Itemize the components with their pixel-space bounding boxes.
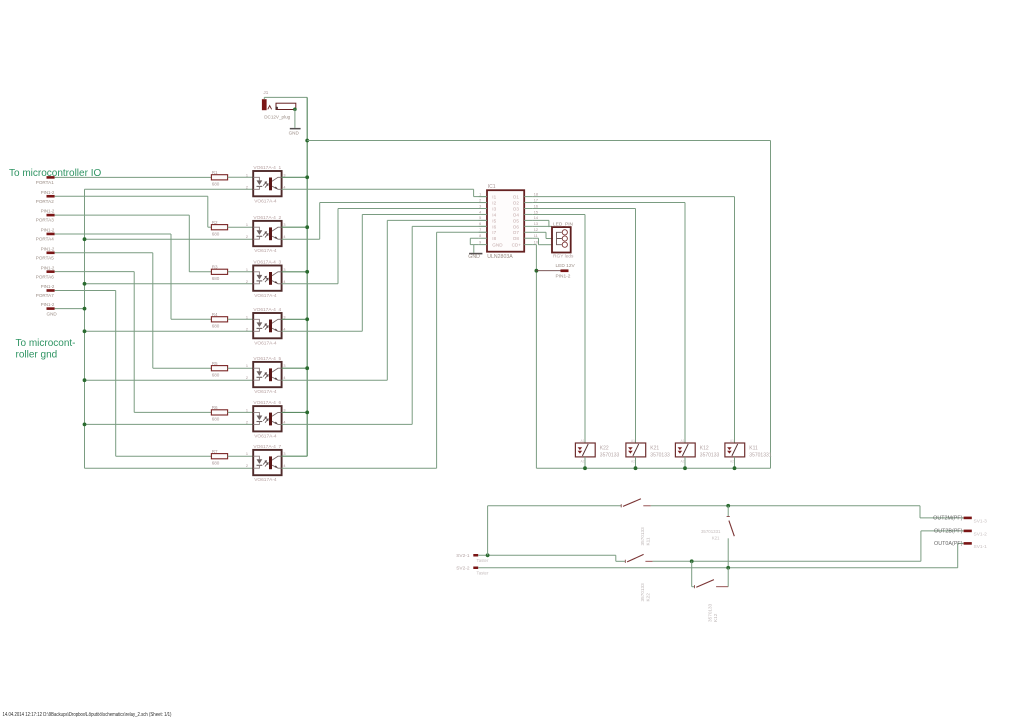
svg-text:PORTA6: PORTA6	[36, 274, 54, 279]
svg-text:2: 2	[246, 327, 248, 331]
svg-text:GND: GND	[289, 131, 300, 136]
svg-text:SV2-2: SV2-2	[456, 565, 470, 571]
svg-text:I5: I5	[492, 218, 496, 223]
svg-text:1: 1	[246, 408, 248, 412]
svg-text:4: 4	[283, 464, 285, 468]
optocoupler OK7 VO617A-4	[246, 444, 286, 483]
svg-text:3: 3	[283, 268, 285, 272]
contact K21 vertical	[701, 506, 734, 568]
svg-text:I2: I2	[492, 200, 496, 205]
svg-text:K12: K12	[700, 445, 709, 451]
svg-text:VO617A-4: VO617A-4	[254, 477, 277, 483]
svg-text:R2: R2	[212, 220, 218, 225]
wire opto3 cathode to mc-gnd	[85, 283, 254, 285]
wire opto7 pin4 to IC1 in7	[282, 232, 487, 468]
svg-text:R7: R7	[212, 449, 218, 454]
svg-text:A2: A2	[730, 459, 734, 463]
svg-text:SV1-2: SV1-2	[974, 532, 988, 538]
connector LED_PIN RGY leds	[552, 221, 574, 259]
svg-text:PIN1-2: PIN1-2	[41, 190, 55, 195]
node mc-gnd junction 3	[83, 282, 87, 286]
svg-text:PIN1-2: PIN1-2	[41, 209, 55, 214]
optocoupler OK6 VO617A-4	[246, 400, 286, 439]
svg-text:K22: K22	[645, 593, 650, 602]
pin PORTA5 PIN1-2	[36, 246, 55, 260]
svg-text:1: 1	[246, 315, 248, 319]
svg-text:1: 1	[246, 223, 248, 227]
node rail K22	[583, 466, 587, 470]
svg-text:R3: R3	[212, 264, 218, 269]
svg-text:680: 680	[212, 276, 220, 281]
svg-text:Taster: Taster	[477, 570, 489, 575]
svg-text:2: 2	[246, 280, 248, 284]
svg-text:K12: K12	[713, 613, 718, 622]
wire opto4 pin4 to IC1 in4	[282, 214, 487, 331]
relay coil K11 3570133	[725, 439, 772, 464]
svg-text:3570133: 3570133	[640, 583, 645, 602]
svg-text:PIN1-2: PIN1-2	[41, 265, 55, 270]
note To microcontroller gnd	[16, 338, 76, 361]
contact K12 bottom	[692, 561, 729, 622]
svg-text:10: 10	[534, 240, 538, 244]
node CD+ LED12V tap	[535, 269, 539, 273]
svg-text:680: 680	[212, 417, 220, 422]
pin SV1-2 OUT2B(PF)	[934, 529, 987, 538]
ground GND at IC1 pin9	[468, 245, 482, 261]
svg-text:16: 16	[534, 204, 538, 208]
node contact rail K12 tap	[690, 559, 694, 563]
svg-text:O5: O5	[513, 218, 520, 223]
svg-text:680: 680	[212, 324, 220, 329]
node rail K12	[683, 466, 687, 470]
wire relay K21 coil bottom	[635, 457, 637, 468]
wire opto5 cathode to mc-gnd	[85, 379, 254, 381]
svg-text:K11: K11	[645, 537, 650, 545]
svg-text:VO617A-4: VO617A-4	[254, 433, 277, 439]
svg-text:O3: O3	[513, 206, 520, 211]
svg-text:RGY leds: RGY leds	[553, 254, 574, 260]
svg-text:680: 680	[212, 460, 220, 465]
pin PORTA6 PIN1-2	[36, 265, 55, 279]
svg-text:VO617A-4 7: VO617A-4 7	[253, 444, 281, 450]
svg-text:OUT2B(PF): OUT2B(PF)	[934, 529, 963, 535]
wire top rail left	[488, 505, 622, 507]
resistor R5 680	[211, 361, 227, 378]
svg-text:GND: GND	[492, 243, 503, 248]
svg-text:PIN1-2: PIN1-2	[41, 302, 55, 307]
svg-text:I7: I7	[492, 230, 496, 235]
wire opto2 pin3 to +12V rail	[282, 226, 308, 228]
wire SV2-2 line	[478, 543, 963, 567]
wire opto3 pin3 to +12V rail	[282, 271, 308, 273]
wire R3 to opto 3 anode	[228, 271, 254, 273]
svg-text:4: 4	[479, 210, 481, 214]
contact K22	[625, 554, 652, 601]
svg-text:roller gnd: roller gnd	[16, 350, 58, 361]
wire SV2-1 feed	[478, 554, 616, 556]
pin SV1-1 OUT0A(PF)	[934, 541, 987, 550]
pin PORTA3 PIN1-2	[36, 209, 55, 223]
svg-text:680: 680	[212, 182, 220, 187]
wire opto7 cathode to mc-gnd	[85, 467, 254, 469]
svg-text:ULN2803A: ULN2803A	[487, 254, 513, 260]
wire R2 to opto 2 anode	[228, 226, 254, 228]
wire opto4 cathode to mc-gnd	[85, 330, 254, 332]
svg-text:6: 6	[479, 222, 481, 226]
svg-text:K11: K11	[749, 445, 758, 451]
wire relay K11 coil bottom	[734, 457, 736, 468]
svg-text:2: 2	[246, 376, 248, 380]
wire opto6 pin4 to IC1 in6	[282, 226, 487, 424]
svg-text:8: 8	[479, 234, 481, 238]
wire riser to top rail	[487, 506, 489, 556]
node rail K11	[733, 466, 737, 470]
svg-text:O6: O6	[513, 224, 520, 229]
svg-text:VO617A-4: VO617A-4	[254, 389, 277, 395]
svg-text:PORTA3: PORTA3	[36, 218, 54, 223]
node SV2-1 branch	[486, 553, 490, 557]
wire PORTA6 to R6	[55, 272, 212, 413]
svg-text:SV2-1: SV2-1	[456, 553, 470, 559]
svg-text:PIN1-2: PIN1-2	[41, 284, 55, 289]
svg-text:2: 2	[479, 198, 481, 202]
svg-text:J1: J1	[263, 90, 268, 95]
svg-text:3570133: 3570133	[700, 452, 720, 458]
relay coil K12 3570133	[675, 439, 719, 464]
svg-text:1: 1	[246, 268, 248, 272]
svg-text:3: 3	[283, 223, 285, 227]
relay coil K22 3570133	[575, 439, 619, 464]
wire IC1 out to relay K11	[533, 197, 735, 443]
resistor R7 680	[211, 449, 227, 466]
svg-text:2: 2	[246, 464, 248, 468]
svg-text:PORTA1: PORTA1	[36, 180, 54, 185]
svg-text:35701331: 35701331	[749, 452, 771, 458]
svg-text:PORTA7: PORTA7	[36, 293, 54, 298]
wire mc-gnd vertical	[84, 189, 86, 468]
svg-text:3570133: 3570133	[640, 527, 645, 546]
wire R5 to opto 5 anode	[228, 367, 254, 369]
wire opto1 cathode to mc-gnd	[85, 188, 254, 190]
svg-text:2: 2	[246, 235, 248, 239]
wire PORTA3 to R3	[55, 215, 212, 272]
wire opto5 pin4 to IC1 in5	[282, 220, 487, 380]
wire IC1 out to relay K12	[533, 203, 685, 443]
svg-text:4: 4	[283, 376, 285, 380]
resistor R1 680	[211, 170, 227, 187]
svg-text:SV1-1: SV1-1	[974, 544, 988, 550]
svg-text:PIN1-2: PIN1-2	[556, 274, 571, 280]
svg-text:I4: I4	[492, 212, 496, 217]
svg-text:GND: GND	[47, 312, 58, 317]
svg-text:5: 5	[479, 216, 481, 220]
wire SV2-1 step to contact rail	[616, 555, 626, 561]
wire R7 to opto 7 anode	[228, 455, 254, 457]
svg-text:3: 3	[283, 452, 285, 456]
svg-text:PORTA5: PORTA5	[36, 255, 54, 260]
svg-text:3: 3	[283, 173, 285, 177]
svg-text:9: 9	[479, 240, 481, 244]
wire PORTA4 to R4	[55, 234, 212, 319]
svg-text:R1: R1	[212, 170, 218, 175]
svg-text:O2: O2	[513, 200, 520, 205]
resistor R2 680	[211, 220, 227, 237]
svg-text:18: 18	[534, 192, 538, 196]
svg-text:O8: O8	[513, 236, 520, 241]
svg-text:4: 4	[283, 280, 285, 284]
svg-text:A1: A1	[631, 439, 635, 443]
wire PORTA5 to R5	[55, 253, 212, 368]
svg-text:1: 1	[246, 364, 248, 368]
node +12V opto1	[305, 175, 309, 179]
svg-text:VO617A-4 2: VO617A-4 2	[253, 215, 281, 221]
svg-text:680: 680	[212, 231, 220, 236]
svg-text:11: 11	[534, 234, 538, 238]
svg-text:12: 12	[534, 228, 538, 232]
wire relay K22 coil bottom	[584, 457, 586, 468]
svg-text:3: 3	[283, 364, 285, 368]
svg-text:VO617A-4: VO617A-4	[254, 293, 277, 299]
resistor R6 680	[211, 405, 227, 422]
svg-text:A2: A2	[681, 459, 685, 463]
node mc-gnd GND pin	[83, 307, 87, 311]
svg-text:OUT2M(PF): OUT2M(PF)	[933, 516, 963, 522]
svg-text:VO617A-4: VO617A-4	[254, 248, 277, 254]
svg-text:VO617A-4: VO617A-4	[254, 198, 277, 204]
svg-text:1: 1	[246, 452, 248, 456]
svg-text:Taster: Taster	[477, 558, 489, 563]
node +12V opto5	[305, 366, 309, 370]
svg-text:SV1-3: SV1-3	[974, 519, 988, 525]
svg-text:3570133: 3570133	[600, 452, 620, 458]
svg-text:4: 4	[283, 327, 285, 331]
svg-text:VO617A-4 6: VO617A-4 6	[253, 400, 281, 406]
pin SV2-1	[456, 553, 489, 563]
wire IC1 pin11 to LED_PIN	[533, 238, 553, 244]
svg-text:14.04.2014 12:17:12 D:\9Backu: 14.04.2014 12:17:12 D:\9Backups\Dropbox\…	[3, 712, 172, 718]
svg-text:13: 13	[534, 222, 538, 226]
relay coil K21 3570133	[626, 439, 670, 464]
svg-text:4: 4	[283, 235, 285, 239]
wire opto6 pin3 to +12V rail	[282, 411, 308, 413]
svg-text:1: 1	[246, 173, 248, 177]
wire top rail right	[651, 506, 964, 518]
svg-text:VO617A-4 4: VO617A-4 4	[253, 307, 281, 313]
svg-text:17: 17	[534, 198, 538, 202]
svg-text:I6: I6	[492, 224, 496, 229]
svg-text:LED 12V: LED 12V	[556, 263, 576, 269]
svg-text:PORTA2: PORTA2	[36, 199, 54, 204]
wire opto3 pin4 to IC1 in3	[282, 209, 487, 284]
optocoupler OK5 VO617A-4	[246, 356, 286, 395]
pin SV2-2	[456, 565, 489, 575]
pin PORTA7 PIN1-2	[36, 284, 55, 298]
wire PORTA7 to R7	[55, 291, 212, 457]
ground GND at J1	[289, 109, 301, 135]
wire IC1 CD+ to relay common rail	[533, 245, 537, 469]
wire IC1 pin14 to LED_PIN	[533, 220, 549, 227]
svg-text:R4: R4	[212, 312, 218, 317]
optocoupler OK1 VO617A-4	[246, 165, 286, 204]
svg-text:VO617A-4: VO617A-4	[254, 340, 277, 346]
wire R4 to opto 4 anode	[228, 318, 254, 320]
svg-text:3570133: 3570133	[708, 603, 713, 622]
node +12V opto4	[305, 317, 309, 321]
node SV2-2 K21 join	[726, 566, 730, 570]
svg-text:4: 4	[283, 185, 285, 189]
svg-text:A1: A1	[730, 439, 734, 443]
svg-text:VO617A-4 3: VO617A-4 3	[253, 259, 281, 265]
wire IC1 pin12 to LED_PIN	[533, 232, 553, 238]
svg-text:1: 1	[479, 192, 481, 196]
svg-text:K22: K22	[600, 445, 609, 451]
wire opto1 pin4 to IC1 in1	[282, 189, 487, 196]
node +12V to relay branch	[305, 139, 309, 143]
optocoupler OK2 VO617A-4	[246, 215, 286, 254]
wire opto4 pin3 to +12V rail	[282, 318, 308, 320]
svg-text:K21: K21	[650, 445, 659, 451]
svg-text:680: 680	[212, 372, 220, 377]
wire opto6 cathode to mc-gnd	[85, 423, 254, 425]
wire GND pin to vertical	[55, 308, 85, 310]
svg-text:I1: I1	[492, 195, 496, 200]
node top rail K21 tap	[726, 504, 730, 508]
svg-text:VO617A-4 5: VO617A-4 5	[253, 356, 281, 362]
wire PORTA2 to R2	[55, 196, 212, 227]
svg-text:2: 2	[246, 185, 248, 189]
svg-text:7: 7	[479, 228, 481, 232]
svg-text:PORTA4: PORTA4	[36, 237, 54, 242]
svg-text:3: 3	[283, 408, 285, 412]
wire opto7 pin3 to +12V rail	[282, 455, 308, 457]
resistor R3 680	[211, 264, 227, 281]
svg-text:14: 14	[534, 216, 538, 220]
node mc-gnd junction 2	[83, 237, 87, 241]
wire J1 pin1 to +12V rail	[264, 97, 307, 99]
wire +12V relay drop	[770, 141, 772, 469]
svg-text:A1: A1	[581, 439, 585, 443]
wire IC1 out to relay K22	[533, 214, 585, 443]
svg-text:O4: O4	[513, 212, 520, 217]
svg-text:35701331: 35701331	[701, 529, 721, 534]
wire R6 to opto 6 anode	[228, 411, 254, 413]
svg-text:DC12V_plug: DC12V_plug	[264, 115, 290, 120]
node mc-gnd junction 4	[83, 329, 87, 333]
svg-text:OUT0A(PF): OUT0A(PF)	[934, 541, 963, 547]
pin PORTA1 PIN1-2	[36, 176, 55, 185]
svg-text:4: 4	[283, 420, 285, 424]
svg-text:IC1: IC1	[488, 184, 496, 190]
node mc-gnd junction 5	[83, 378, 87, 382]
node +12V opto6	[305, 411, 309, 415]
wire IC1 out to relay K21	[533, 209, 636, 444]
svg-text:3: 3	[283, 315, 285, 319]
wire IC1 pin8 tie	[470, 238, 478, 244]
svg-text:O7: O7	[513, 230, 520, 235]
pin PORTA2 PIN1-2	[36, 190, 55, 204]
node +12V opto2	[305, 225, 309, 229]
wire opto2 cathode to mc-gnd	[85, 238, 254, 240]
optocoupler OK4 VO617A-4	[246, 307, 286, 346]
wire contact rail right	[653, 531, 964, 561]
pin GND PIN1-2	[41, 302, 58, 316]
svg-text:I3: I3	[492, 206, 496, 211]
node +12V opto3	[305, 270, 309, 274]
svg-text:GND: GND	[468, 254, 480, 260]
svg-text:CD+: CD+	[512, 243, 522, 248]
svg-text:PIN1-2: PIN1-2	[41, 228, 55, 233]
wire R1 to opto 1 anode	[228, 176, 254, 178]
op-amp U1 / driver IC1 ULN2803A	[479, 184, 538, 260]
svg-text:A2: A2	[581, 459, 585, 463]
resistor R4 680	[211, 312, 227, 329]
pin LED 12V PIN1-2	[536, 263, 575, 280]
wire opto2 pin4 to IC1 in2	[282, 203, 487, 240]
node mc-gnd junction 6	[83, 423, 87, 427]
svg-text:15: 15	[534, 210, 538, 214]
wire relay K12 coil bottom	[684, 457, 686, 468]
svg-text:3570133: 3570133	[650, 452, 670, 458]
wire opto5 pin3 to +12V rail	[282, 367, 308, 369]
svg-text:A1: A1	[681, 439, 685, 443]
svg-text:A2: A2	[631, 459, 635, 463]
wire +12V rail vertical	[306, 97, 308, 456]
optocoupler OK3 VO617A-4	[246, 259, 286, 298]
pin SV1-3 OUT2M(PF)	[933, 516, 987, 525]
wire IC1 pin13 to LED_PIN	[533, 225, 552, 227]
contact K11	[621, 499, 651, 546]
svg-text:3: 3	[479, 204, 481, 208]
svg-text:I8: I8	[492, 236, 496, 241]
wire PORTA1 to R1	[55, 176, 212, 178]
pin PORTA4 PIN1-2	[36, 228, 55, 242]
svg-text:R5: R5	[212, 361, 218, 366]
node rail K21	[634, 466, 638, 470]
svg-text:O1: O1	[513, 195, 520, 200]
connector J1 DC12V_plug	[262, 90, 297, 120]
wire opto1 pin3 to +12V rail	[282, 176, 308, 178]
svg-text:2: 2	[246, 420, 248, 424]
svg-text:PIN1-2: PIN1-2	[41, 246, 55, 251]
svg-text:K21: K21	[712, 535, 720, 540]
svg-text:To microcont-: To microcont-	[16, 338, 76, 349]
wire +12V to relays top	[307, 140, 770, 142]
svg-text:VO617A-4 1: VO617A-4 1	[253, 165, 281, 171]
wire relay common rail	[536, 467, 770, 469]
